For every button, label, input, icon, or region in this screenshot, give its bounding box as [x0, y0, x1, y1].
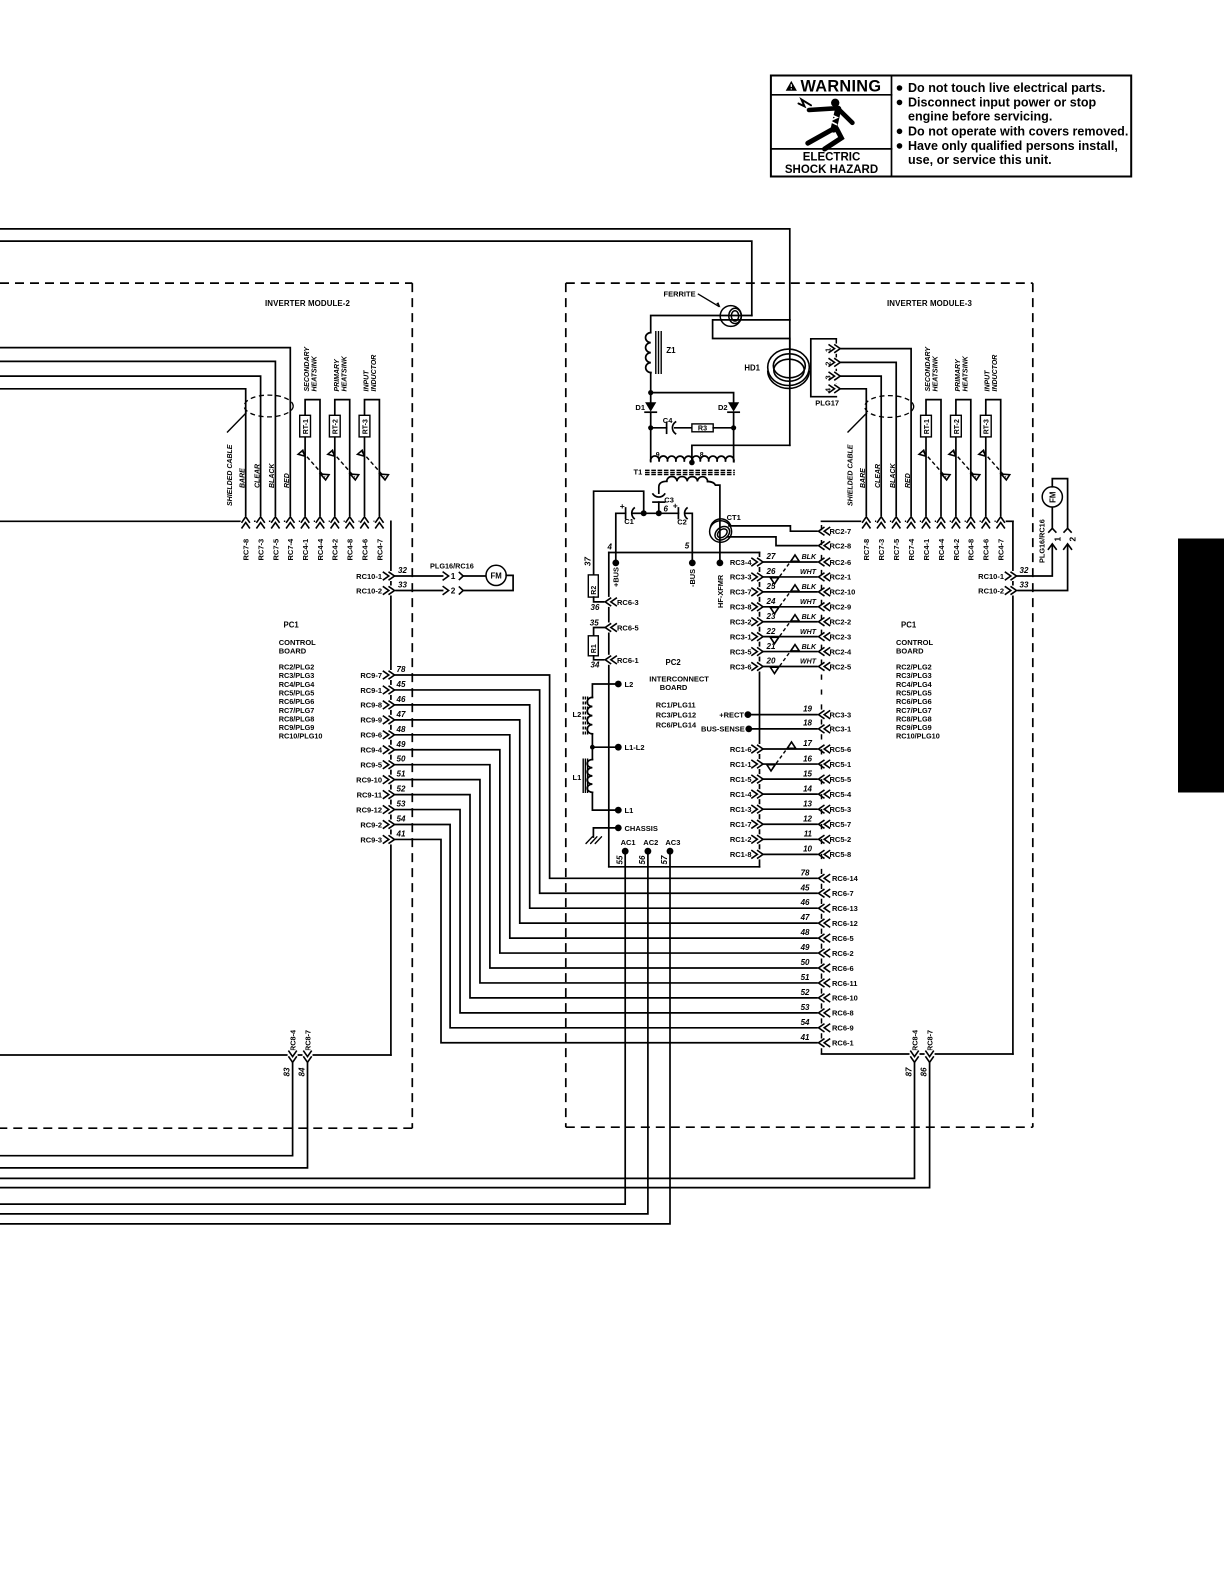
svg-text:RC7-3: RC7-3	[257, 539, 266, 561]
svg-text:34: 34	[591, 661, 600, 670]
connector RC9-4 module-2	[360, 740, 406, 755]
svg-text:BARE: BARE	[860, 468, 867, 488]
wire 53 from RC9-12 to RC6-8	[395, 810, 819, 1013]
svg-text:1: 1	[1052, 537, 1062, 542]
svg-text:PLG17: PLG17	[815, 398, 839, 407]
svg-text:L1: L1	[573, 773, 582, 782]
connector RC9-2 module-2	[360, 815, 406, 830]
connector PLG16/RC16 pin 1 (module-2)	[430, 562, 474, 582]
wire 56 AC2 to left	[0, 851, 648, 1214]
wire 54 from RC9-2 to RC6-9	[395, 825, 819, 1028]
svg-text:RC3-1: RC3-1	[830, 725, 852, 734]
connector RC4-4 (module-3 row)	[936, 516, 946, 560]
connector RC9-1 module-2	[360, 680, 406, 695]
connector RC1-8 on PC2	[730, 849, 764, 859]
svg-text:R2: R2	[591, 586, 598, 595]
thermistor RT-1	[298, 400, 329, 517]
PC1 module-3 right edge	[1012, 521, 1014, 1054]
connector RC2-3 module-3 PC1	[818, 632, 851, 642]
svg-text:45: 45	[800, 883, 810, 892]
svg-text:RC6-7: RC6-7	[832, 889, 854, 898]
node D1 top junction	[648, 390, 653, 395]
svg-text:INPUT: INPUT	[364, 370, 371, 392]
connector RC2-7	[818, 526, 851, 536]
svg-text:RC5-5: RC5-5	[830, 775, 852, 784]
wire 23 BLK to RC2-2	[763, 612, 818, 622]
wire 46 from RC9-8 to RC6-13	[395, 705, 819, 908]
svg-text:RC10-1: RC10-1	[356, 572, 382, 581]
svg-text:FM: FM	[1048, 492, 1057, 503]
svg-text:54: 54	[801, 1018, 810, 1027]
connector RC1-1 on PC2	[730, 759, 764, 769]
wire C1 to +BUS	[616, 513, 626, 559]
svg-text:WHT: WHT	[800, 629, 817, 636]
svg-text:BOARD: BOARD	[660, 683, 688, 692]
node AC1	[615, 838, 635, 865]
PC1 module-3 left edge (connector column)	[821, 525, 823, 1054]
connector RC7-5 (module-2 row)	[270, 516, 280, 560]
svg-text:RC10-1: RC10-1	[978, 572, 1004, 581]
resistor R1	[588, 636, 598, 656]
connector RC3-5 on PC2	[730, 647, 764, 657]
svg-text:RC1-1: RC1-1	[730, 760, 752, 769]
wire chassis to ground	[593, 828, 618, 837]
connector RC1-6 on PC2	[730, 744, 764, 754]
connector RC6-10 module-3 PC1	[801, 988, 858, 1003]
wire Z1 top to ferrite to input A	[651, 316, 752, 333]
node L1-L2 terminal	[615, 743, 645, 752]
diode D1	[635, 393, 656, 413]
capacitor C4	[651, 416, 676, 434]
connector RC6-5 module-3 PC1	[800, 928, 854, 943]
svg-text:57: 57	[660, 855, 669, 864]
connector PLG17 pin 4	[823, 384, 841, 394]
wire 26 WHT to RC2-1	[763, 567, 818, 577]
wire 24 WHT to RC2-9	[763, 597, 818, 607]
page bleed tab	[1178, 539, 1224, 793]
connector RC6-9 module-3 PC1	[801, 1018, 854, 1033]
connector RC2-6 module-3 PC1	[818, 557, 851, 567]
svg-text:11: 11	[804, 830, 813, 839]
svg-text:86: 86	[919, 1067, 928, 1076]
connector RC9-3 module-2	[360, 829, 406, 844]
svg-text:12: 12	[803, 814, 812, 823]
electric shock pictogram	[799, 99, 853, 149]
connector RC10-1 module-2	[356, 566, 407, 581]
connector RC8-4 module-3	[904, 1029, 919, 1077]
transformer T1 primary windings	[651, 452, 734, 462]
connector RC5-2 module-3 PC1	[818, 834, 851, 844]
wire PLG16-2 to RC10-2	[395, 590, 443, 592]
svg-text:HF-XFMR: HF-XFMR	[716, 574, 725, 608]
svg-text:RC4-8: RC4-8	[346, 539, 355, 561]
connector RC6-13 module-3 PC1	[800, 898, 858, 913]
svg-text:3: 3	[823, 375, 832, 379]
svg-text:RC9-4: RC9-4	[360, 746, 383, 755]
transformer T1 core	[634, 467, 735, 476]
electric shock hazard text	[785, 151, 878, 176]
svg-text:L2: L2	[625, 680, 634, 689]
svg-text:RC6-13: RC6-13	[832, 904, 858, 913]
svg-text:RC9/PLG9: RC9/PLG9	[896, 723, 932, 732]
wire T1 center tap to HD1 leg	[692, 445, 790, 462]
connector RC4-2 (module-2 row)	[330, 516, 340, 560]
wire input A to ferrite and Z1 (top)	[0, 241, 752, 315]
svg-text:25: 25	[766, 582, 776, 591]
svg-text:SHOCK HAZARD: SHOCK HAZARD	[785, 164, 878, 176]
svg-text:8: 8	[700, 452, 704, 459]
svg-text:PRIMARY: PRIMARY	[334, 358, 341, 391]
svg-text:RC6-14: RC6-14	[832, 874, 859, 883]
svg-text:50: 50	[801, 958, 810, 967]
svg-text:15: 15	[803, 769, 812, 778]
wire PLG16-1 to fan motor	[463, 575, 486, 577]
svg-text:RC2-9: RC2-9	[830, 603, 852, 612]
connector RC6-8 module-3 PC1	[801, 1003, 854, 1018]
svg-text:FERRITE: FERRITE	[664, 290, 696, 299]
connector PLG16/RC16 pin 2 (module-3)	[1063, 528, 1077, 550]
svg-text:RC2-5: RC2-5	[830, 662, 852, 671]
svg-text:RC4-2: RC4-2	[952, 539, 961, 561]
connector RC3-2 on PC2	[730, 617, 764, 627]
transformer T1 secondary winding	[659, 477, 720, 560]
svg-text:RC7-8: RC7-8	[242, 539, 251, 561]
svg-text:INDUCTOR: INDUCTOR	[992, 355, 999, 392]
wire PLG17 pin 2 to cable	[840, 362, 896, 516]
node AC3	[660, 838, 680, 865]
svg-text:RC3-5: RC3-5	[730, 647, 752, 656]
svg-text:RC6-5: RC6-5	[832, 934, 854, 943]
wire fan motor to PLG16 pin 2 (module-3)	[1052, 479, 1067, 529]
connector RC9-7 module-2	[360, 665, 406, 680]
svg-text:19: 19	[803, 704, 812, 713]
svg-text:RC7-5: RC7-5	[271, 539, 280, 561]
svg-text:RC2-10: RC2-10	[830, 588, 856, 597]
svg-text:BLK: BLK	[802, 584, 817, 591]
wire 18 BUS-SENSE to RC3-1	[749, 719, 818, 729]
wire PLG17 pin 3 to cable	[840, 376, 881, 516]
connector RC3-4 on PC2	[730, 557, 764, 567]
connector RC6-1 on PC2	[591, 655, 639, 670]
svg-text:-BUS: -BUS	[688, 569, 697, 587]
wire 20 WHT to RC2-5	[763, 657, 818, 667]
ferrite label	[664, 290, 721, 308]
diode D2	[718, 402, 739, 412]
svg-text:RC9-12: RC9-12	[356, 805, 382, 814]
svg-text:BARE: BARE	[240, 468, 247, 488]
connector RC2-9 module-3 PC1	[818, 602, 851, 612]
wire 87 RC8-4 module-3 to left	[0, 1062, 915, 1178]
svg-text:RC1/PLG11: RC1/PLG11	[656, 700, 696, 709]
thermistor RT-2	[949, 400, 980, 517]
connector PLG17 pin 1	[823, 344, 841, 354]
connector RC9-12 module-2	[356, 800, 406, 815]
thermistor RT-1	[919, 400, 950, 517]
connector RC1-7 on PC2	[730, 819, 764, 829]
svg-text:51: 51	[397, 770, 406, 779]
connector RC2-2 module-3 PC1	[818, 617, 851, 627]
connector RC6-11 module-3 PC1	[801, 973, 858, 988]
connector RC6-12 module-3 PC1	[800, 913, 858, 928]
wire 37 loop R2 to junction	[594, 491, 644, 575]
svg-text:+: +	[673, 500, 678, 510]
svg-text:RC6-2: RC6-2	[832, 949, 854, 958]
wire 16 to RC5-1	[763, 754, 818, 764]
node T1 center tap	[689, 460, 695, 466]
svg-text:D1: D1	[635, 403, 645, 412]
svg-text:R3: R3	[698, 424, 707, 433]
svg-text:FM: FM	[490, 571, 501, 580]
svg-text:RC3/PLG3: RC3/PLG3	[279, 671, 315, 680]
svg-text:RC3-4: RC3-4	[730, 558, 753, 567]
wire junction to C2	[644, 512, 679, 514]
svg-text:C2: C2	[677, 518, 687, 527]
connector RC8-7 module-2	[297, 1030, 312, 1077]
connector RC1-3 on PC2	[730, 804, 764, 814]
capacitor C3	[653, 494, 674, 514]
svg-text:78: 78	[801, 868, 810, 877]
connector RC4-7 (module-2 row)	[374, 516, 384, 560]
svg-text:RC9-7: RC9-7	[360, 671, 382, 680]
svg-text:CLEAR: CLEAR	[254, 464, 261, 488]
connector RC6-5 on PC2	[590, 618, 639, 632]
svg-text:RC5/PLG5: RC5/PLG5	[279, 688, 315, 697]
thermistor RT-3 inductor label (module-3)	[985, 355, 1000, 392]
svg-text:ELECTRIC: ELECTRIC	[803, 151, 861, 163]
svg-text:RT-1: RT-1	[924, 419, 931, 434]
wire 17 to RC5-6	[763, 739, 818, 749]
node L1-L2 junction	[590, 745, 595, 750]
PC1 connector list (module-3)	[896, 663, 940, 741]
connector RC3-3 on PC2	[730, 572, 764, 582]
wire 14 to RC5-4	[763, 784, 818, 794]
node C3 junction	[656, 510, 662, 516]
svg-text:BLACK: BLACK	[269, 463, 276, 488]
warning header	[786, 77, 882, 95]
svg-text:17: 17	[803, 739, 812, 748]
inverter module-2 dashed enclosure	[0, 283, 412, 1128]
connector RC3-8 on PC2	[730, 602, 764, 612]
wire RC6-5 to R1	[594, 628, 606, 636]
svg-text:RC4-2: RC4-2	[331, 539, 340, 561]
connector RC3-1 module-3 PC1	[818, 724, 851, 734]
connector RC3-3 module-3 PC1	[818, 710, 851, 720]
svg-text:RC10/PLG10: RC10/PLG10	[896, 732, 940, 741]
svg-text:RC6-1: RC6-1	[832, 1039, 854, 1048]
svg-text:33: 33	[398, 580, 407, 589]
warning label box	[771, 76, 1131, 177]
svg-text:+BUS: +BUS	[612, 567, 621, 587]
wire 11 to RC5-2	[763, 830, 818, 840]
wire 78 from RC9-7 to RC6-14	[395, 675, 819, 878]
connector PLG16/RC16 pin 2 (module-2)	[443, 586, 464, 596]
svg-text:RC1-4: RC1-4	[730, 790, 753, 799]
svg-text:RC8-7: RC8-7	[303, 1030, 312, 1051]
svg-text:RC1-3: RC1-3	[730, 805, 752, 814]
connector RC5-7 module-3 PC1	[818, 819, 851, 829]
svg-text:BOARD: BOARD	[279, 646, 307, 655]
wire color labels module-2	[240, 463, 292, 488]
connector RC2-10 module-3 PC1	[818, 587, 856, 597]
fan motor FM module-3	[1042, 487, 1062, 507]
resistor R3	[692, 424, 713, 433]
svg-text:RC8-7: RC8-7	[926, 1030, 935, 1051]
connector RC2-1 module-3 PC1	[818, 572, 851, 582]
connector RC4-1 (module-3 row)	[921, 516, 931, 560]
connector RC5-6 module-3 PC1	[818, 744, 851, 754]
svg-text:54: 54	[397, 815, 406, 824]
svg-text:HEATSINK: HEATSINK	[312, 355, 319, 391]
svg-text:PC2: PC2	[666, 658, 682, 667]
svg-text:RC9-9: RC9-9	[360, 716, 382, 725]
PC1 connector list (module-2)	[279, 663, 323, 741]
wire D2 to C4 node	[733, 412, 735, 428]
svg-text:50: 50	[397, 755, 406, 764]
svg-text:RC8-4: RC8-4	[910, 1029, 919, 1051]
wire L2 terminal to inductor L2	[592, 684, 618, 697]
svg-text:RT-3: RT-3	[984, 419, 991, 434]
svg-text:16: 16	[803, 754, 812, 763]
svg-text:AC3: AC3	[665, 838, 680, 847]
svg-text:RC9-3: RC9-3	[360, 835, 382, 844]
wire 25 BLK to RC2-10	[763, 582, 818, 592]
svg-text:RC9-1: RC9-1	[360, 686, 382, 695]
svg-text:AC2: AC2	[643, 838, 658, 847]
wire PLG17 pin 4 to cable	[840, 389, 866, 517]
connector RC6-2 module-3 PC1	[800, 943, 854, 958]
wire 13 to RC5-3	[763, 799, 818, 809]
svg-text:22: 22	[766, 627, 776, 636]
wire L1 to L1 terminal	[592, 792, 618, 810]
svg-text:RC4/PLG4: RC4/PLG4	[279, 680, 316, 689]
svg-text:RC1-7: RC1-7	[730, 820, 752, 829]
svg-text:RC5-4: RC5-4	[830, 790, 853, 799]
connector RC7-4 (module-3 row)	[906, 516, 916, 560]
wire C2 to -BUS	[686, 513, 693, 559]
svg-text:RC3/PLG12: RC3/PLG12	[656, 710, 696, 719]
svg-text:RC10-2: RC10-2	[978, 586, 1004, 595]
wire PLG16-2 to RC10-2 (module-3)	[1017, 546, 1068, 591]
svg-text:RC3-8: RC3-8	[730, 603, 752, 612]
node C4 left junction	[648, 425, 653, 430]
svg-text:RC5-8: RC5-8	[830, 850, 852, 859]
node +BUS	[612, 560, 621, 588]
twisted pair marker 23/22	[776, 617, 794, 641]
wire BARE into module-2	[0, 389, 246, 517]
inductor L1	[573, 747, 593, 793]
wire 52 from RC9-11 to RC6-10	[395, 795, 819, 998]
connector RC9-6 module-2	[360, 725, 406, 740]
svg-text:RC4-7: RC4-7	[997, 539, 1006, 561]
wire R2 to RC6-3	[594, 597, 606, 602]
svg-text:RC6-12: RC6-12	[832, 919, 858, 928]
wire CLEAR into module-2	[0, 376, 261, 516]
svg-text:Do not touch live electrical p: Do not touch live electrical parts.	[908, 81, 1105, 95]
connector RC4-2 (module-3 row)	[951, 516, 961, 560]
svg-text:47: 47	[800, 913, 810, 922]
svg-text:RC7-5: RC7-5	[892, 539, 901, 561]
svg-text:41: 41	[396, 829, 406, 838]
wire Z1 to D1 node	[650, 373, 652, 393]
svg-text:RC1-2: RC1-2	[730, 835, 752, 844]
node -BUS	[688, 560, 697, 588]
connector RC2-8	[818, 541, 851, 551]
node CHASSIS terminal	[615, 824, 658, 833]
wire PLG16-1 to fan motor (module-3)	[1051, 507, 1053, 528]
svg-text:46: 46	[800, 898, 810, 907]
wire CT1 sense lead 2 to RC2-8	[728, 537, 819, 546]
wire D1 node to D2	[651, 393, 734, 403]
inverter module-3 dashed enclosure	[566, 283, 1033, 1127]
connector RC9-5 module-2	[360, 755, 406, 770]
wire 84 RC8-7 module-2 to left	[0, 1062, 308, 1168]
svg-text:56: 56	[638, 855, 647, 864]
thermistor RT-3	[979, 400, 1010, 517]
svg-text:D2: D2	[718, 403, 728, 412]
svg-text:32: 32	[398, 566, 407, 575]
svg-text:BLK: BLK	[802, 614, 817, 621]
svg-text:RC6/PLG14: RC6/PLG14	[656, 721, 697, 730]
connector RC2-5 module-3 PC1	[818, 662, 851, 672]
svg-text:RC9/PLG9: RC9/PLG9	[279, 723, 315, 732]
svg-text:RC4-1: RC4-1	[922, 539, 931, 561]
wire RC10-1 to PLG16 pin1 (module-3)	[1017, 546, 1053, 577]
svg-text:RC7-4: RC7-4	[286, 538, 295, 561]
svg-text:AC1: AC1	[621, 838, 636, 847]
connector RC5-5 module-3 PC1	[818, 774, 851, 784]
svg-text:RC4-8: RC4-8	[967, 539, 976, 561]
connector RC4-4 (module-2 row)	[315, 516, 325, 560]
svg-text:RC9-6: RC9-6	[360, 731, 382, 740]
wire C4 to R3	[675, 427, 692, 429]
node +RECT	[719, 710, 751, 719]
svg-text:RC7/PLG7: RC7/PLG7	[279, 706, 315, 715]
svg-text:Have only qualified persons in: Have only qualified persons install,	[908, 139, 1118, 153]
svg-text:RC6/PLG6: RC6/PLG6	[279, 697, 315, 706]
warning bullet list	[897, 81, 1129, 167]
capacitor C1	[620, 501, 644, 526]
node C1-C2 junction	[641, 510, 647, 516]
wire 49 from RC9-4 to RC6-2	[395, 750, 819, 953]
svg-text:RT-3: RT-3	[362, 419, 369, 434]
svg-text:RC2-6: RC2-6	[830, 558, 852, 567]
svg-text:CT1: CT1	[727, 513, 741, 522]
svg-text:26: 26	[766, 567, 776, 576]
connector RC10-2 module-3	[978, 580, 1029, 595]
svg-text:RC6-10: RC6-10	[832, 994, 858, 1003]
fan motor FM module-2	[486, 565, 506, 585]
svg-text:37: 37	[584, 557, 593, 566]
transformer T1 primary left leg	[650, 428, 652, 462]
wire color labels module-3	[860, 463, 912, 488]
svg-text:engine before servicing.: engine before servicing.	[908, 110, 1052, 124]
svg-text:WHT: WHT	[800, 659, 817, 666]
shielded cable shield ellipse module-2	[244, 395, 293, 417]
svg-text:RC3-7: RC3-7	[730, 588, 752, 597]
svg-text:RC4-1: RC4-1	[301, 539, 310, 561]
connector RC6-14 module-3 PC1	[801, 868, 859, 883]
svg-text:RC4-6: RC4-6	[360, 539, 369, 561]
connector RC1-2 on PC2	[730, 834, 764, 844]
svg-text:RED: RED	[905, 473, 912, 488]
wire R1 to RC6-1	[594, 656, 606, 660]
svg-text:53: 53	[397, 800, 406, 809]
svg-text:R1: R1	[591, 644, 598, 653]
svg-text:RC2/PLG2: RC2/PLG2	[896, 663, 932, 672]
svg-text:L1-L2: L1-L2	[625, 743, 645, 752]
svg-text:RC7-4: RC7-4	[907, 538, 916, 561]
connector RC4-8 (module-2 row)	[345, 516, 355, 560]
